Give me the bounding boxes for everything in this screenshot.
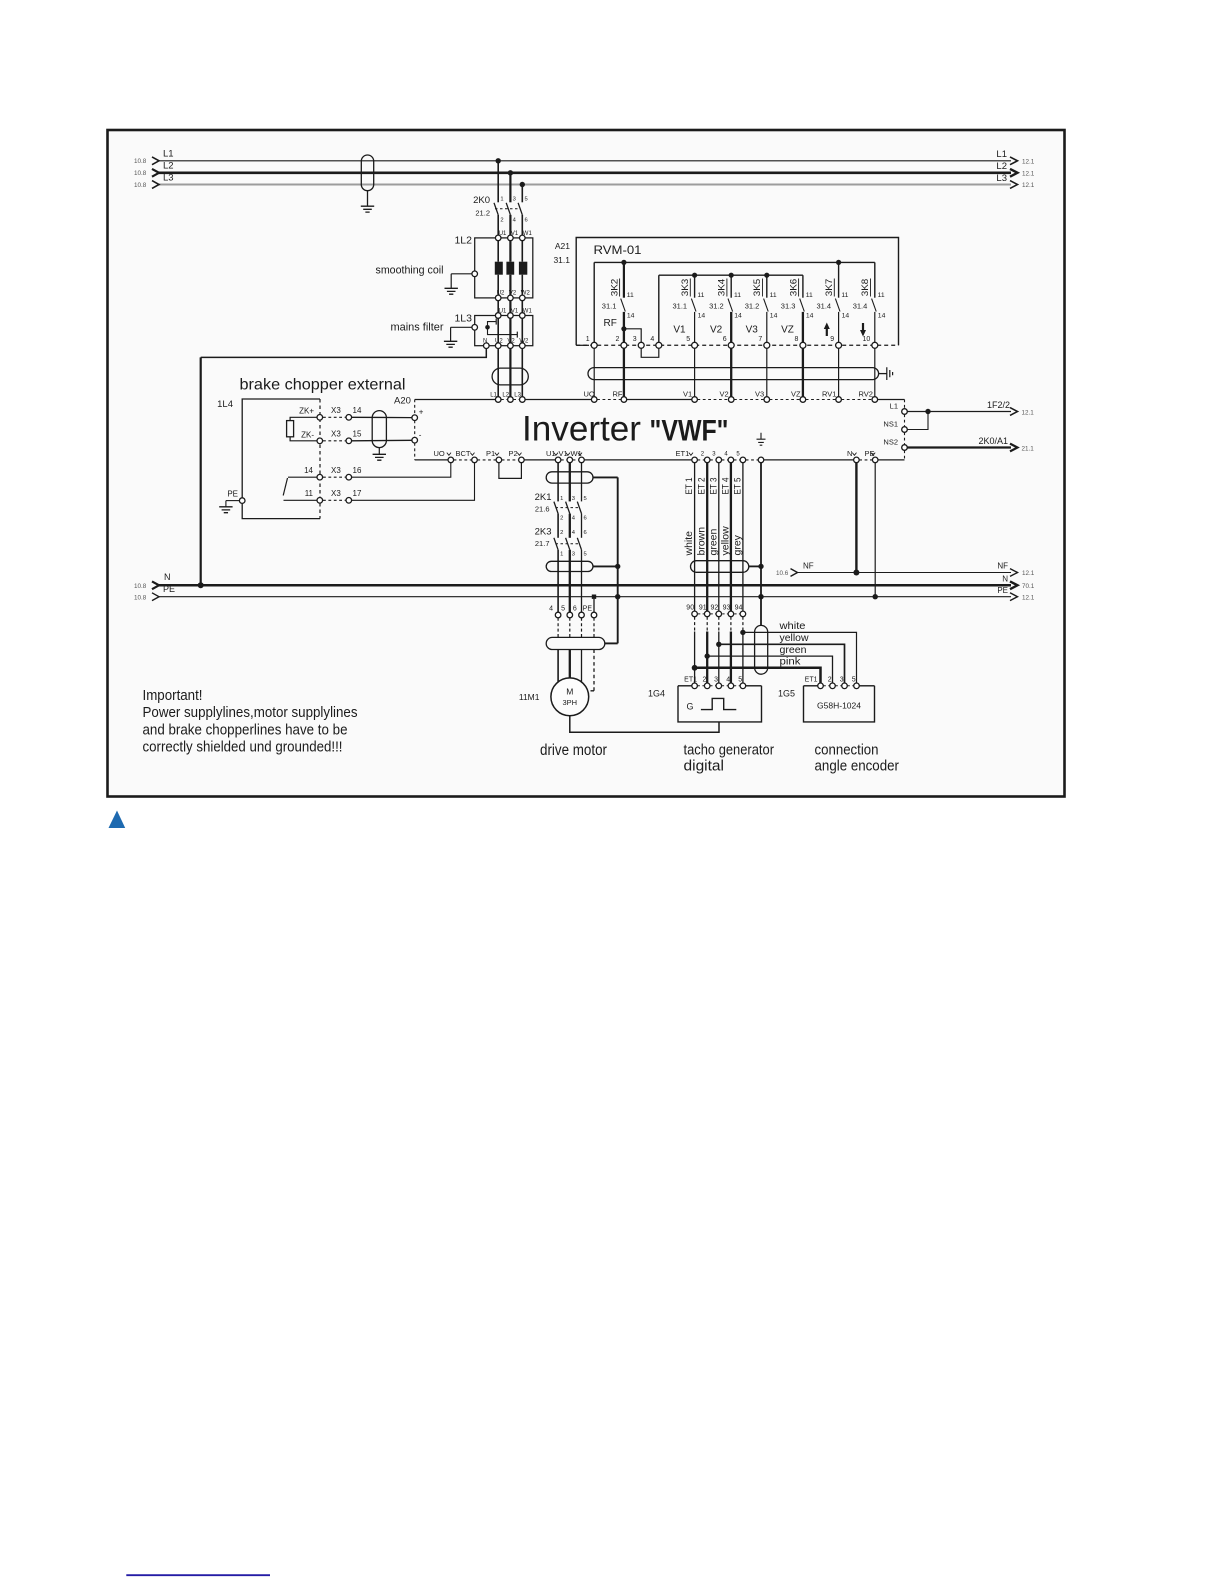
contact 2K0 pole 2 blade bbox=[506, 203, 510, 215]
terminal 1L3 ground lug bbox=[472, 325, 478, 331]
shield capsule on mains lines bbox=[361, 155, 373, 191]
terminal 14 1L4 bbox=[317, 474, 323, 480]
wire PE rail bbox=[159, 596, 1012, 598]
svg-text:3K3: 3K3 bbox=[680, 279, 691, 297]
svg-text:5: 5 bbox=[584, 552, 587, 558]
1L4 dashed edge bbox=[319, 399, 321, 519]
svg-text:yellow: yellow bbox=[780, 633, 810, 644]
terminal L2 inverter top bbox=[508, 397, 514, 403]
node N rail junction bbox=[198, 582, 204, 588]
wire ZK- to X3.15 bbox=[323, 440, 346, 442]
node 1L3 internal bbox=[485, 325, 490, 330]
svg-text:21.2: 21.2 bbox=[475, 209, 490, 218]
terminal W2 1L3 bbox=[520, 343, 526, 349]
connector X3 pin 16 bbox=[346, 474, 352, 480]
terminal ET1 1G4 bbox=[692, 683, 698, 689]
wire L2 mains rail (bold) bbox=[159, 172, 1012, 175]
node RF bbox=[621, 326, 626, 331]
wire ZK+ to X3.14 bbox=[323, 416, 346, 418]
svg-text:G: G bbox=[687, 702, 694, 712]
wire contact 14 side bbox=[288, 476, 317, 478]
wire motor connector x=581.5 dashed bbox=[581, 618, 583, 638]
terminal 6 RVM-01 bbox=[728, 342, 734, 348]
svg-text:connection: connection bbox=[815, 742, 879, 758]
svg-text:N: N bbox=[483, 339, 487, 345]
svg-text:RV1: RV1 bbox=[822, 390, 836, 399]
node 2K0/A1 exit arrow bbox=[1010, 444, 1018, 452]
connector strip dash bbox=[698, 613, 704, 615]
svg-text:21.1: 21.1 bbox=[1022, 446, 1035, 453]
wire shield stub 3 bbox=[605, 642, 618, 644]
node bus2-3K3 bbox=[692, 273, 697, 278]
svg-text:8: 8 bbox=[794, 336, 798, 343]
svg-text:10.6: 10.6 bbox=[776, 570, 789, 577]
svg-text:V2: V2 bbox=[720, 390, 729, 399]
ground (mains shield) bbox=[361, 206, 374, 212]
wire phase 2 1L2 to 1L3 bbox=[509, 301, 511, 313]
wire PE to ground bbox=[226, 500, 240, 502]
svg-text:10.8: 10.8 bbox=[134, 158, 147, 165]
wire P1-P2 jumper bbox=[499, 463, 522, 479]
svg-text:NF: NF bbox=[803, 561, 814, 570]
relay contact 3K5 bbox=[766, 275, 768, 298]
svg-text:12.1: 12.1 bbox=[1022, 410, 1035, 417]
svg-text:A21: A21 bbox=[555, 241, 570, 251]
svg-text:11: 11 bbox=[806, 292, 813, 299]
wire UO RVM to inverter bbox=[593, 348, 595, 396]
node bus1-3K2 bbox=[621, 260, 626, 265]
wire ET3 inverter to connector bbox=[718, 463, 720, 611]
node L1 exit arrow bbox=[1010, 157, 1018, 165]
terminal 1 RVM-01 bbox=[591, 342, 597, 348]
wire motor phase x=581.5 inverter to 2K1 bbox=[581, 463, 583, 502]
svg-text:X3: X3 bbox=[331, 430, 341, 439]
connector X3 pin 15 bbox=[346, 438, 352, 444]
svg-text:1F2/2: 1F2/2 bbox=[987, 400, 1010, 410]
wire ET1 inverter to connector bbox=[694, 463, 696, 611]
wire 92 to tacho ET3 bbox=[718, 632, 720, 683]
svg-text:RF: RF bbox=[613, 390, 623, 399]
svg-text:2: 2 bbox=[828, 677, 832, 684]
wire L1 to 1F2/2 bbox=[907, 411, 1011, 413]
wire 1L2 phase 1 inner bottom bbox=[497, 275, 499, 295]
shield capsule brake chopper cable bbox=[372, 411, 386, 448]
terminal NS2 bbox=[902, 445, 908, 451]
wire L1 drop to 2K0 bbox=[497, 161, 499, 203]
terminal PE motor connector bbox=[591, 612, 597, 618]
wire shield drain to ground bbox=[367, 191, 369, 207]
wire X3.16 to UO bbox=[352, 463, 451, 477]
wire pink to encoder ET1 (bold) bbox=[695, 668, 821, 683]
terminal BCT inverter bottom bbox=[472, 457, 478, 463]
svg-text:L2: L2 bbox=[502, 392, 509, 398]
1G5 connector dash bbox=[823, 685, 829, 687]
wire RVM bus 1 bbox=[594, 261, 875, 263]
node white tap bbox=[740, 630, 745, 635]
terminal V3 inverter top bbox=[764, 397, 770, 403]
svg-text:5: 5 bbox=[525, 197, 528, 203]
svg-text:NS2: NS2 bbox=[883, 437, 898, 446]
wire yellow to encoder 3 bbox=[719, 644, 845, 683]
contact 2K0 pole 1 blade bbox=[494, 203, 498, 215]
inverter A20 box edges bbox=[415, 399, 496, 401]
terminal 92 connector bbox=[716, 611, 722, 617]
2K1 mechanical linkage bbox=[556, 507, 580, 509]
wire motor shield drain bbox=[617, 477, 619, 643]
contact 2K1 pole 1 blade bbox=[554, 502, 558, 514]
node tap L1 bbox=[496, 158, 501, 163]
svg-text:1G4: 1G4 bbox=[648, 689, 665, 699]
terminal VZ inverter top bbox=[800, 397, 806, 403]
wire phase 3 inside 1L3 bbox=[521, 318, 523, 343]
svg-text:1: 1 bbox=[586, 336, 590, 343]
terminal UO inverter top bbox=[591, 397, 597, 403]
wire phase 1 1L3 to inverter bbox=[497, 349, 499, 397]
wire 9x dashed x=707.2 bbox=[706, 617, 708, 632]
svg-text:10.8: 10.8 bbox=[134, 182, 147, 189]
node pink tap bbox=[692, 665, 698, 671]
svg-text:93: 93 bbox=[723, 605, 731, 612]
svg-text:U1: U1 bbox=[499, 231, 507, 237]
wire V2 RVM to inverter bbox=[730, 348, 732, 396]
wire ET5 inverter to connector bbox=[742, 463, 744, 611]
svg-text:6: 6 bbox=[525, 218, 528, 224]
svg-text:W1: W1 bbox=[523, 309, 533, 315]
terminal L3 inverter top bbox=[520, 397, 526, 403]
svg-text:92: 92 bbox=[711, 605, 719, 612]
svg-text:L1: L1 bbox=[163, 149, 174, 160]
svg-text:3K7: 3K7 bbox=[824, 279, 835, 297]
node L1/NS1 junction bbox=[925, 409, 930, 414]
node L2 source arrow bbox=[152, 169, 159, 177]
svg-text:V3: V3 bbox=[746, 325, 759, 336]
wire to X3.16 bbox=[323, 476, 346, 478]
svg-text:1: 1 bbox=[560, 496, 563, 502]
RVM-01 dashed bottom edge bbox=[576, 344, 898, 346]
svg-text:10.8: 10.8 bbox=[134, 583, 147, 590]
contact 2K1 pole 2 blade bbox=[566, 502, 570, 514]
svg-text:4: 4 bbox=[650, 336, 654, 343]
terminal 8 RVM-01 bbox=[800, 342, 806, 348]
svg-text:9: 9 bbox=[830, 336, 834, 343]
schematic frame border bbox=[108, 130, 1065, 797]
terminal ET2 1G4 bbox=[704, 683, 710, 689]
node L3 exit arrow bbox=[1010, 181, 1018, 189]
terminal W2 1L2 bbox=[520, 295, 526, 301]
terminal V1 1L3 bbox=[508, 313, 514, 319]
svg-text:brown: brown bbox=[696, 527, 708, 556]
svg-text:5: 5 bbox=[561, 606, 565, 613]
shield capsule encoder cable bbox=[755, 625, 768, 674]
wire 1L2 phase 3 inner bottom bbox=[521, 275, 523, 295]
terminal NS1 bbox=[902, 427, 908, 433]
module A21 RVM-01 box bbox=[576, 238, 898, 346]
svg-text:ZK+: ZK+ bbox=[299, 407, 314, 416]
svg-text:PE: PE bbox=[865, 449, 875, 458]
svg-text:10: 10 bbox=[863, 336, 871, 343]
svg-text:X3: X3 bbox=[331, 466, 341, 475]
terminal U2 1L3 bbox=[495, 343, 501, 349]
svg-text:6: 6 bbox=[584, 516, 587, 522]
svg-text:X3: X3 bbox=[331, 406, 341, 415]
capacitor plate 2 bbox=[516, 332, 518, 338]
node bus1-3K7 bbox=[836, 260, 841, 265]
svg-text:14: 14 bbox=[806, 313, 814, 320]
node L2 exit arrow bbox=[1010, 169, 1018, 177]
wire NF rail bbox=[798, 572, 1012, 574]
terminal ET3 inverter bottom bbox=[716, 457, 722, 463]
1G5 connector dash bbox=[835, 685, 841, 687]
svg-text:BCT: BCT bbox=[456, 449, 471, 458]
brake resistor in 1L4 bbox=[287, 421, 294, 437]
svg-text:NS1: NS1 bbox=[883, 419, 898, 428]
terminal V2 inverter top bbox=[728, 397, 734, 403]
node L1 source arrow bbox=[152, 157, 159, 165]
wire 91 to tacho ET2 (bold) bbox=[706, 632, 708, 683]
relay contact 3K3 bbox=[694, 275, 696, 298]
wire NS2 to 2K0/A1 (bold) bbox=[907, 446, 1011, 448]
terminal RF inverter top bbox=[621, 397, 627, 403]
svg-text:21.6: 21.6 bbox=[535, 504, 550, 513]
terminal shield inverter bottom bbox=[758, 457, 764, 463]
blue footer line bbox=[126, 1574, 270, 1576]
svg-text:PE: PE bbox=[583, 606, 593, 613]
wire PE rail to motor PE pin bbox=[593, 599, 595, 612]
relay contact 3K2 bbox=[623, 262, 625, 297]
wire motor PE dashed bbox=[593, 650, 595, 691]
svg-text:1G5: 1G5 bbox=[778, 689, 795, 699]
relay contact 3K8 bbox=[874, 262, 876, 297]
ground (1L4 PE) bbox=[219, 507, 232, 513]
svg-text:2: 2 bbox=[560, 530, 563, 536]
svg-text:ET1: ET1 bbox=[676, 449, 690, 458]
svg-text:5: 5 bbox=[686, 336, 690, 343]
shield capsule ET cable bbox=[691, 561, 749, 573]
inverter right edge (dashed) bbox=[904, 400, 906, 409]
terminal RV1 inverter top bbox=[836, 397, 842, 403]
node bus2-3K5 bbox=[764, 273, 769, 278]
svg-text:12.1: 12.1 bbox=[1022, 182, 1035, 189]
svg-text:5: 5 bbox=[584, 496, 587, 502]
wire 1L3 lug to ground bbox=[451, 326, 472, 328]
terminal 2 RVM-01 bbox=[621, 342, 627, 348]
svg-text:L3: L3 bbox=[163, 172, 174, 183]
svg-text:31.1: 31.1 bbox=[602, 302, 617, 311]
svg-text:1L2: 1L2 bbox=[454, 235, 472, 247]
svg-text:A20: A20 bbox=[394, 396, 411, 407]
svg-text:3K5: 3K5 bbox=[752, 279, 763, 297]
wire RF RVM to inverter bbox=[623, 348, 625, 396]
svg-text:RF: RF bbox=[604, 318, 617, 329]
svg-text:smoothing coil: smoothing coil bbox=[376, 265, 444, 277]
terminal ET2 inverter bottom bbox=[704, 457, 710, 463]
svg-text:-: - bbox=[419, 431, 422, 440]
svg-text:mains filter: mains filter bbox=[391, 322, 444, 334]
wire motor phase x=569.8 inverter to 2K1 bbox=[569, 463, 571, 502]
svg-text:3: 3 bbox=[572, 496, 575, 502]
shield capsule motor cable bottom bbox=[546, 637, 605, 649]
svg-text:6: 6 bbox=[723, 336, 727, 343]
svg-text:70.1: 70.1 bbox=[1022, 583, 1035, 590]
svg-text:11: 11 bbox=[841, 292, 848, 299]
wire RF jumper t3-t4 bbox=[624, 329, 659, 358]
wire 1L3 cap 1 bbox=[488, 322, 496, 328]
svg-text:white: white bbox=[683, 531, 695, 557]
svg-text:and brake chopperlines have to: and brake chopperlines have to be bbox=[143, 721, 348, 738]
terminal ET3 1G4 bbox=[716, 683, 722, 689]
terminal N 1L3 bbox=[484, 343, 490, 349]
svg-text:U2: U2 bbox=[495, 339, 503, 345]
svg-text:correctly shielded und grounde: correctly shielded und grounded!!! bbox=[143, 739, 343, 756]
1G5 connector dash bbox=[847, 685, 853, 687]
svg-text:Power supplylines,motor supply: Power supplylines,motor supplylines bbox=[143, 704, 358, 721]
wire 2K0 pole 1 to 1L2 bbox=[497, 215, 499, 238]
svg-text:2: 2 bbox=[500, 218, 503, 224]
wire 1L2 phase 2 inner top bbox=[509, 241, 511, 262]
terminal 5 RVM-01 bbox=[692, 342, 698, 348]
terminal - inverter bbox=[412, 437, 418, 443]
terminal V2 1L2 bbox=[508, 295, 514, 301]
svg-text:V2: V2 bbox=[509, 291, 517, 297]
wire 2K1 to 2K3 pole 1 bbox=[557, 514, 559, 538]
svg-text:pink: pink bbox=[780, 657, 802, 668]
terminal V1 inverter bottom bbox=[567, 457, 573, 463]
wire L2 drop to 2K0 bbox=[509, 173, 511, 203]
svg-text:3K8: 3K8 bbox=[860, 279, 871, 297]
wire 90 to tacho ET1 bbox=[694, 632, 696, 683]
terminal ET1 inverter bottom bbox=[692, 457, 698, 463]
svg-text:L2: L2 bbox=[163, 161, 174, 172]
svg-text:V3: V3 bbox=[755, 390, 764, 399]
svg-text:12.1: 12.1 bbox=[1022, 171, 1035, 178]
svg-text:11: 11 bbox=[770, 292, 777, 299]
svg-text:V2: V2 bbox=[710, 325, 723, 336]
terminal RV2 inverter top bbox=[872, 397, 878, 403]
2K0 mechanical linkage bbox=[495, 208, 520, 210]
terminal P1 inverter bottom bbox=[496, 457, 502, 463]
svg-text:UO: UO bbox=[584, 390, 595, 399]
connector X3 pin 17 bbox=[346, 498, 352, 504]
svg-text:1L4: 1L4 bbox=[217, 399, 233, 410]
svg-text:10.8: 10.8 bbox=[134, 170, 147, 177]
wire 9x dashed x=730.9 bbox=[730, 617, 732, 632]
terminal ET5 1G4 bbox=[740, 683, 746, 689]
wire RV2 RVM to inverter bbox=[874, 348, 876, 396]
wire 9x dashed x=718.8 bbox=[718, 617, 720, 632]
svg-text:RV2: RV2 bbox=[859, 390, 873, 399]
node 1F2/2 exit arrow bbox=[1010, 408, 1018, 416]
wire phase 1 1L2 to 1L3 bbox=[497, 301, 499, 313]
wire inverter N to NF rail (bold) bbox=[855, 463, 857, 573]
svg-text:14: 14 bbox=[627, 313, 635, 320]
wire 2K1 to 2K3 pole 2 bbox=[569, 514, 571, 538]
svg-text:N: N bbox=[1002, 574, 1008, 583]
svg-text:PE: PE bbox=[997, 586, 1008, 595]
svg-text:31.2: 31.2 bbox=[709, 302, 724, 311]
svg-text:ET 3: ET 3 bbox=[708, 478, 719, 495]
wire ET2 inverter to connector bbox=[706, 463, 708, 611]
wire motor connector x=594 dashed bbox=[593, 618, 595, 638]
svg-text:2K1: 2K1 bbox=[535, 492, 552, 503]
node NF exit arrow bbox=[1010, 569, 1018, 577]
svg-text:14: 14 bbox=[353, 406, 362, 415]
svg-text:N: N bbox=[164, 572, 171, 582]
svg-text:L1: L1 bbox=[490, 392, 497, 398]
svg-text:ET 5: ET 5 bbox=[732, 478, 743, 495]
connector strip dash bbox=[711, 613, 717, 615]
node PE source arrow bbox=[152, 593, 159, 601]
terminal V1 inverter top bbox=[692, 397, 698, 403]
svg-text:PE: PE bbox=[163, 584, 175, 594]
wire 2K3 pole 2 to motor connector bbox=[569, 550, 571, 612]
terminal L1 inverter top bbox=[495, 397, 501, 403]
svg-text:tacho generator: tacho generator bbox=[684, 742, 775, 758]
terminal ZK- bbox=[317, 438, 323, 444]
svg-text:W2: W2 bbox=[521, 291, 531, 297]
node N source arrow bbox=[152, 581, 159, 589]
svg-text:14: 14 bbox=[878, 313, 886, 320]
wire motor connector x=558.1 dashed bbox=[557, 618, 559, 638]
wire filter N horizontal bbox=[201, 349, 487, 358]
svg-text:31.3: 31.3 bbox=[781, 302, 796, 311]
terminal 1G5 x=844.5 bbox=[842, 683, 848, 689]
connector strip dash bbox=[722, 613, 727, 615]
terminal ZK+ bbox=[317, 415, 323, 421]
1G4 connector dash bbox=[710, 685, 716, 687]
wire to X3.17 bbox=[323, 499, 346, 501]
wire ET shield stub bbox=[749, 565, 761, 567]
wire 2K3 pole 1 to motor connector bbox=[557, 550, 559, 612]
wire phase 2 1L3 to inverter bbox=[509, 349, 511, 397]
svg-text:3K4: 3K4 bbox=[717, 279, 728, 297]
wire 1L2 lug to ground bbox=[451, 273, 472, 275]
wire shield drain bbox=[378, 448, 380, 455]
svg-text:drive motor: drive motor bbox=[540, 742, 607, 759]
svg-text:L3: L3 bbox=[996, 173, 1007, 184]
svg-text:VZ: VZ bbox=[781, 325, 794, 336]
svg-text:V1: V1 bbox=[511, 231, 519, 237]
svg-text:green: green bbox=[707, 528, 719, 555]
terminal 1L2 ground lug bbox=[472, 271, 478, 277]
wire resistor to ZK+ bbox=[290, 417, 317, 420]
svg-text:2K0/A1: 2K0/A1 bbox=[978, 436, 1008, 446]
angle encoder 1G5 box bbox=[804, 686, 875, 722]
svg-text:12.1: 12.1 bbox=[1022, 595, 1035, 602]
wire contact 11 side bbox=[284, 499, 317, 501]
terminal 5 motor connector bbox=[567, 612, 573, 618]
terminal W1 1L2 bbox=[520, 235, 526, 241]
terminal W1 inverter bottom bbox=[579, 457, 585, 463]
terminal 90 connector bbox=[692, 611, 698, 617]
wire 93 to tacho ET4 (bold) bbox=[730, 632, 732, 683]
svg-text:7: 7 bbox=[758, 336, 762, 343]
wire X3.14 to inverter + bbox=[352, 416, 412, 418]
wire motor V to motor (bold) bbox=[569, 650, 571, 679]
svg-text:2: 2 bbox=[560, 516, 563, 522]
wire X3.15 to inverter - bbox=[352, 439, 412, 442]
svg-text:14: 14 bbox=[304, 466, 313, 475]
svg-text:Important!: Important! bbox=[143, 687, 203, 704]
svg-text:11: 11 bbox=[697, 292, 704, 299]
wire N rail (bold) bbox=[159, 584, 1012, 587]
svg-text:Inverter: Inverter bbox=[522, 410, 641, 449]
svg-text:ET 2: ET 2 bbox=[697, 478, 708, 495]
node ET drain on PE rail bbox=[758, 594, 763, 599]
terminal 94 connector bbox=[740, 611, 746, 617]
wire 2K0 pole 2 to 1L2 bbox=[509, 215, 511, 238]
svg-text:3K2: 3K2 bbox=[609, 279, 620, 297]
node shield drain on PE rail bbox=[615, 594, 620, 599]
